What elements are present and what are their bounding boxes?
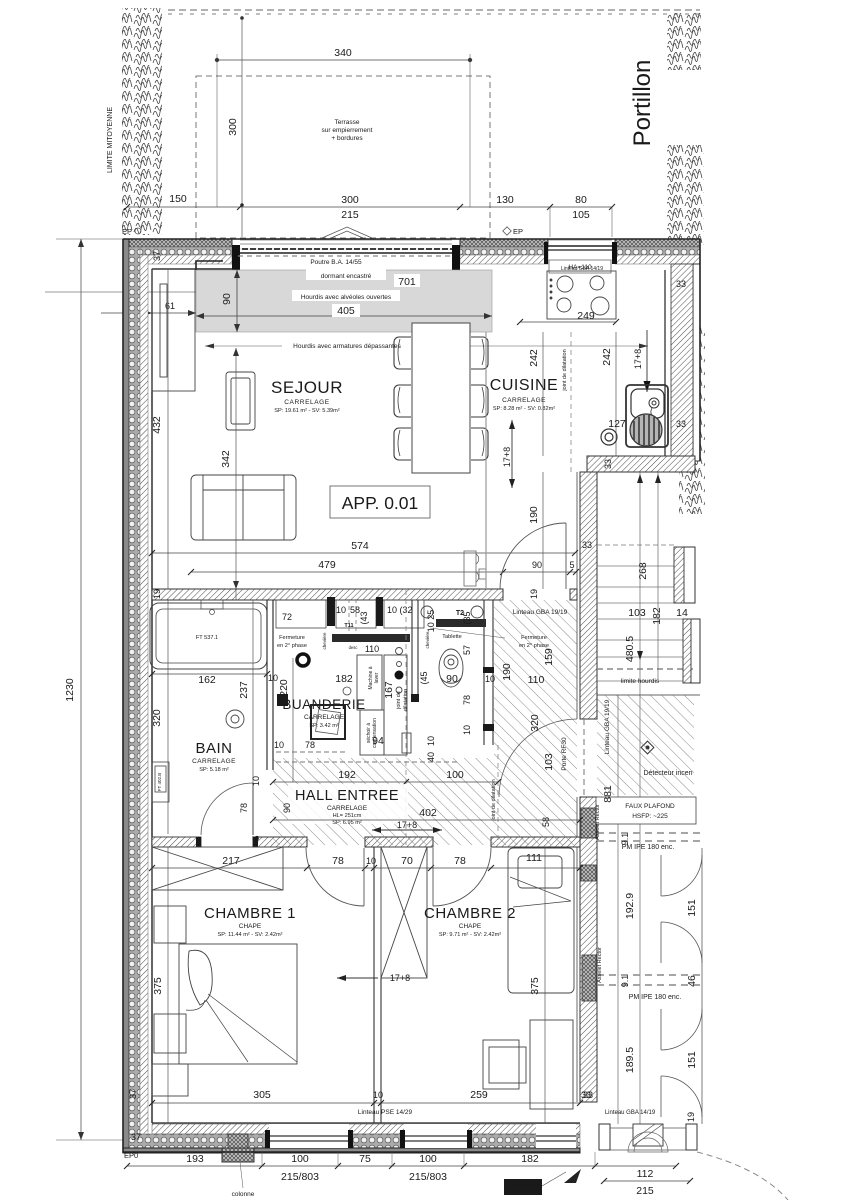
svg-text:881: 881 [602,785,614,803]
svg-text:Portillon: Portillon [629,60,656,147]
svg-text:78: 78 [305,740,315,750]
bedroom window 2 [400,1124,472,1148]
bedroom window 3 small [536,1124,576,1148]
label dormant encastre [306,269,386,280]
dim 242 rot 1 [542,332,544,456]
svg-text:5: 5 [569,560,574,570]
hall north line [485,332,487,589]
svg-text:EP0: EP0 [124,1151,138,1160]
building outer boundary emphasis [123,239,700,1153]
svg-text:78: 78 [239,803,249,813]
svg-text:Poutre B.A. 14/55: Poutre B.A. 14/55 [310,259,362,266]
black post 1 [327,597,335,626]
svg-text:EP: EP [122,227,132,236]
EP symbol left [122,227,141,236]
door chambre2 [433,848,491,906]
svg-text:APP. 0.01: APP. 0.01 [342,493,419,513]
svg-text:17+8: 17+8 [502,447,512,467]
svg-text:19: 19 [686,1112,696,1122]
wall hatch block 0 [581,865,596,881]
door stop dot [297,654,309,666]
svg-text:9.1: 9.1 [620,975,630,988]
svg-text:100: 100 [291,1153,309,1165]
small double circle [601,429,617,445]
svg-text:249: 249 [577,310,595,322]
stair side wall strip lower [683,619,691,683]
svg-text:dormant encastré: dormant encastré [321,273,372,280]
svg-text:217: 217 [222,855,240,867]
svg-text:chevière: chevière [322,632,327,650]
wall hatch block 2 [582,955,596,1001]
svg-text:5: 5 [251,835,261,840]
svg-text:37: 37 [131,1132,141,1142]
svg-text:17+8: 17+8 [397,820,417,830]
svg-text:375: 375 [152,977,164,995]
dim 375 rot chambre1 [167,847,169,1123]
svg-text:130: 130 [496,194,514,206]
door sejour-hall leaf+arc [500,523,566,589]
svg-text:103: 103 [628,607,646,619]
detecteur hydrocarbures black label [504,1179,542,1195]
leader hourdis armatures [205,344,648,349]
svg-text:Fermeture: Fermeture [279,635,305,641]
dim 574 [149,550,578,556]
exterior stair steps [597,472,700,695]
svg-text:10 25: 10 25 [426,610,436,633]
bedroom window 1 [265,1124,353,1148]
svg-text:110: 110 [528,674,545,686]
dims row above bedroom wall [149,865,583,871]
property boundary top dashed line [168,10,700,14]
svg-text:EP: EP [513,227,523,236]
bain door arc [201,783,253,835]
svg-text:215/803: 215/803 [281,1171,319,1183]
label HALL ENTREE [288,784,408,824]
svg-text:37: 37 [128,1089,138,1099]
hedge scribble left band [122,8,162,235]
svg-text:(35: (35 [462,611,472,624]
corridor left wall upper (hall side) [577,472,597,719]
svg-text:colonne: colonne [232,1191,255,1198]
svg-text:Tablette: Tablette [442,634,462,640]
svg-text:150: 150 [169,193,187,205]
svg-text:SP: 19.61 m² - SV: 5.39m²: SP: 19.61 m² - SV: 5.39m² [274,408,340,414]
svg-text:sur empierrement: sur empierrement [322,127,373,134]
chairs left column [394,337,411,460]
extension lines bottom [262,1152,595,1166]
svg-text:T11: T11 [344,623,353,629]
wall hatch block 1 [581,808,596,838]
cabinet row top [276,600,424,628]
svg-text:193: 193 [186,1153,204,1165]
slope 17+8 chambre [337,975,378,981]
svg-text:151: 151 [686,899,698,917]
svg-text:162: 162 [198,674,216,686]
dim 300 vertical [241,16,243,237]
dim 375 rot chambre2 [544,847,546,1123]
desk chambre2 [530,1020,573,1109]
svg-text:HALL ENTREE: HALL ENTREE [295,788,399,804]
svg-text:33: 33 [603,459,613,469]
svg-text:10: 10 [426,736,436,746]
svg-text:215: 215 [341,209,359,221]
dim 405 [196,313,492,319]
top wall pier right [615,239,700,264]
boiler circle [630,414,662,446]
svg-text:90: 90 [446,673,458,685]
svg-text:215: 215 [636,1185,654,1197]
svg-text:joint de dilatation: joint de dilatation [491,779,497,821]
svg-text:167: 167 [383,681,395,699]
corridor door arc 2b [661,1076,702,1117]
svg-text:480.5: 480.5 [624,636,636,662]
svg-text:PM IPE 180 enc.: PM IPE 180 enc. [622,844,675,851]
svg-text:300: 300 [227,118,239,136]
slope arrow 17+8 kitchen left [509,420,515,488]
washing tub square [311,705,345,739]
svg-text:58: 58 [541,817,551,827]
svg-text:574: 574 [351,540,369,552]
svg-text:190: 190 [528,506,540,524]
hall hatched floor [273,600,577,845]
svg-text:19: 19 [529,589,539,599]
svg-text:CARRELAGE: CARRELAGE [502,397,546,404]
svg-text:Hourdis avec alvéoles ouvertes: Hourdis avec alvéoles ouvertes [301,294,392,301]
dim row bottom rooms [149,1100,583,1106]
dim 162 [149,671,270,677]
svg-text:Hourdis avec armatures dépassa: Hourdis avec armatures dépassantes [293,343,401,350]
svg-text:SP: 8.28 m² - SV: 0.82m²: SP: 8.28 m² - SV: 0.82m² [493,406,555,412]
middle wall sejour/bain (19) [152,589,577,600]
window tilt symbol top [322,227,372,238]
svg-text:desc: desc [349,645,358,650]
svg-text:(43: (43 [359,611,369,624]
leader fermeture [430,628,505,638]
machine a laver + sechoir boxes [357,655,411,755]
svg-text:10: 10 [462,725,472,735]
shelf black bar [436,619,486,627]
hedge scribble right band 3 [679,326,705,514]
corridor long verticals [618,472,702,1124]
bain south wall piece [152,837,201,847]
dim 242 rot 2 [615,332,617,456]
svg-text:CHAMBRE 1: CHAMBRE 1 [204,905,296,922]
dim 432 rot [167,270,169,589]
svg-text:57: 57 [462,645,472,655]
kitchen right exterior wall [665,264,700,461]
slope 17+8 hall [372,827,442,833]
overall vertical dim 1230 [56,239,127,1140]
washbasin [226,710,244,728]
svg-text:111: 111 [526,852,542,864]
label hourdis alveoles [292,290,400,301]
hedge scribble right band 1 [667,13,701,70]
svg-text:Détecteur hydrocar.: Détecteur hydrocar. [506,1182,541,1187]
svg-text:78: 78 [462,695,472,705]
svg-text:CARRELAGE: CARRELAGE [192,758,236,765]
svg-text:94: 94 [372,735,384,747]
dim 249 [517,319,619,325]
svg-text:en auto-réparation: en auto-réparation [507,1188,540,1193]
svg-text:10: 10 [387,605,397,615]
corridor door arc 1a [661,855,702,896]
bed chambre1 [179,944,297,1064]
svg-text:Asselet Rector: Asselet Rector [595,804,601,840]
svg-text:(45: (45 [419,671,429,684]
porch hatched floor [597,695,694,795]
kitchen-stair step wall horizontal [587,456,695,472]
svg-text:237: 237 [238,681,250,699]
svg-text:CARRELAGE: CARRELAGE [284,399,330,406]
svg-text:90: 90 [282,803,292,813]
radiator chambre1 [152,1064,188,1096]
svg-text:268: 268 [637,562,649,580]
svg-text:Asselet Rector: Asselet Rector [597,947,603,983]
svg-text:375: 375 [529,977,541,995]
svg-text:19: 19 [152,589,162,599]
svg-text:242: 242 [528,349,540,367]
svg-text:159: 159 [543,648,555,666]
dim 192 [270,779,501,785]
svg-text:190: 190 [501,663,513,681]
svg-text:320: 320 [151,709,163,727]
APP. 0.01 box [330,486,430,518]
svg-text:402: 402 [419,807,437,819]
armoire chambre1 with X [152,847,283,890]
dim 701 [394,274,420,287]
wc toilet [439,649,463,687]
svg-text:80: 80 [575,194,587,206]
door chambre1 [306,848,364,906]
wc niche west wall [411,600,419,702]
svg-text:17+8: 17+8 [633,349,643,369]
dim 340 [215,54,472,207]
top wall pier left (crosshatch+dots+hatch) [123,239,232,269]
svg-text:limite hourdis: limite hourdis [621,678,660,685]
svg-text:LIMITE MITOYENNE: LIMITE MITOYENNE [107,107,114,173]
svg-text:SEJOUR: SEJOUR [271,378,343,397]
svg-text:33: 33 [676,279,686,289]
joint de dilatation kitchen [570,332,572,472]
svg-text:SP: 11.44 m² - SV: 2.42m²: SP: 11.44 m² - SV: 2.42m² [218,932,283,938]
neighbour party line [45,291,196,293]
svg-text:joint de: joint de [396,691,402,710]
svg-text:10: 10 [274,740,284,750]
svg-text:+ bordures: + bordures [331,135,363,142]
bain door jambs [196,837,201,847]
kitchen window HA=110 [544,240,617,273]
terrace dashed outline [196,76,490,238]
sofa [191,475,296,540]
svg-text:182: 182 [335,673,353,685]
dims row 150/300/130/80 + 215/105 [124,204,615,237]
dim 402 [270,817,583,823]
svg-text:10: 10 [485,674,495,684]
svg-text:189.5: 189.5 [624,1047,636,1073]
svg-text:chevière: chevière [425,631,430,649]
dim 320 rot left [167,600,169,834]
corridor door arc 1b [661,922,702,963]
circle 182 [343,687,351,695]
bed chambre2 [508,848,574,993]
svg-text:701: 701 [398,276,416,288]
svg-text:192.9: 192.9 [624,893,636,919]
detecteur incendie symbol [641,741,654,754]
svg-text:en 2° phase: en 2° phase [519,643,549,649]
svg-text:72: 72 [282,612,292,622]
svg-text:182: 182 [651,607,663,625]
svg-text:37: 37 [152,251,162,261]
svg-text:78: 78 [454,855,466,867]
kitchen sink unit [626,385,668,447]
svg-text:33: 33 [582,540,592,550]
dining table [412,323,470,473]
left exterior wall [123,239,152,1152]
chaudiere circles left [395,648,404,694]
joint de dilatation hall 2 [497,745,499,845]
wc partition east [483,600,494,745]
svg-text:110: 110 [365,644,379,654]
svg-text:10: 10 [336,605,346,615]
svg-text:Terrasse: Terrasse [335,119,360,126]
svg-text:259: 259 [470,1089,488,1101]
svg-text:215/803: 215/803 [409,1171,447,1183]
svg-text:90: 90 [221,293,233,305]
svg-text:SP: 6.95 m²: SP: 6.95 m² [332,820,362,826]
fermeture dashed verticals [348,599,350,640]
north arrow detail [564,1169,581,1183]
svg-text:Linteau GBA 14/19: Linteau GBA 14/19 [605,1110,656,1116]
big bay window 215 [232,240,460,270]
svg-text:BAIN: BAIN [195,740,232,757]
top wall pier mid (between windows) [460,239,548,264]
stove [547,271,616,319]
svg-text:127: 127 [608,418,626,430]
svg-text:33: 33 [676,419,686,429]
dashed path curve bottom right [697,1152,788,1200]
svg-text:dilatation: dilatation [403,689,409,711]
corridor door arc 2a [661,1009,702,1050]
door arc RF30 [499,719,577,797]
svg-text:100: 100 [419,1153,437,1165]
buanderie west wall [267,600,288,770]
svg-text:Linteau GBA 19/19: Linteau GBA 19/19 [513,609,568,616]
bedside table 2 [154,1014,186,1053]
counter black bar [332,634,410,642]
FAUX PLAFOND box [596,797,696,824]
svg-text:112: 112 [637,1168,654,1180]
svg-text:105: 105 [572,209,590,221]
svg-text:305: 305 [253,1089,271,1101]
closet left [152,269,195,391]
stair outline right [684,547,700,683]
svg-text:CHAPE: CHAPE [459,923,482,930]
svg-text:1230: 1230 [64,678,76,702]
dim 342 rot [233,348,239,600]
slope arrow 17+8 kitchen right [644,330,651,392]
svg-text:HL= 251cm: HL= 251cm [333,813,362,819]
chairs right column [471,337,488,460]
svg-text:laver: laver [374,672,380,683]
svg-text:CARRELAGE: CARRELAGE [327,805,368,812]
shaft X box [381,847,427,978]
cabinet at hall wall [464,551,486,586]
svg-text:PM IPE 180 enc.: PM IPE 180 enc. [629,994,682,1001]
svg-text:61: 61 [165,301,175,311]
svg-text:SP: 5.18 m²: SP: 5.18 m² [199,767,229,773]
dim 90 vertical on grey band [234,270,240,332]
entry door bottom [599,1124,697,1152]
svg-text:Fermeture: Fermeture [521,635,547,641]
svg-text:90: 90 [532,560,542,570]
svg-text:en 2° phase: en 2° phase [277,643,307,649]
svg-text:40: 40 [426,752,436,762]
dim 237 rot [252,600,254,834]
svg-text:FT 537.1: FT 537.1 [196,635,218,641]
chair chambre2 [483,1040,526,1089]
hourdis grey band [196,261,492,332]
svg-text:182: 182 [521,1153,539,1165]
svg-text:242: 242 [601,348,613,366]
svg-text:340: 340 [334,47,352,59]
column footing bottom [222,1134,254,1162]
svg-text:SP: 9.71 m² - SV: 2.42m²: SP: 9.71 m² - SV: 2.42m² [439,932,501,938]
dim 479 [188,569,579,575]
svg-text:CUISINE: CUISINE [490,377,558,394]
svg-text:151: 151 [686,1051,698,1069]
svg-text:46: 46 [686,975,698,987]
corridor left wall lower [577,797,597,1102]
entry dim line [601,1178,693,1184]
T circles [421,606,483,618]
svg-text:70: 70 [401,855,413,867]
svg-text:CHAPE: CHAPE [239,923,262,930]
bottom dim line [124,1163,679,1169]
svg-text:78: 78 [332,855,344,867]
vanity FT 402.B [152,762,169,802]
svg-text:103: 103 [543,753,555,771]
joint de dilatation hall vertical [405,590,407,845]
svg-text:432: 432 [151,416,163,434]
svg-text:320: 320 [529,714,541,732]
RF30 door opening dashes [583,719,585,797]
svg-text:479: 479 [318,559,336,571]
svg-text:Linteau GBA 14/19: Linteau GBA 14/19 [561,266,603,272]
svg-text:CHAMBRE 2: CHAMBRE 2 [424,905,516,922]
hedge scribble right band 2 [667,145,704,245]
svg-text:FAUX PLAFOND: FAUX PLAFOND [625,803,675,810]
svg-text:33: 33 [583,1090,593,1100]
svg-text:75: 75 [359,1153,371,1165]
svg-text:405: 405 [337,305,355,317]
bathtub [150,600,267,669]
bedside table 1 [154,906,186,943]
IPE beam dashes 1 [597,833,702,841]
svg-text:342: 342 [220,450,232,468]
terrace edge extension [195,238,197,270]
partition wall chambres [374,847,381,1123]
bottom exterior wall [123,1123,580,1153]
svg-text:10: 10 [251,776,261,786]
svg-text:FT 402.B: FT 402.B [157,773,162,791]
svg-text:192: 192 [338,769,356,781]
IPE beam dashes 2 [597,975,702,985]
svg-text:SP: 3.42 m²: SP: 3.42 m² [309,723,339,729]
EP symbol right [503,227,523,236]
svg-text:14: 14 [676,607,688,619]
svg-text:10: 10 [373,1090,383,1100]
dim 190 rot kitchen door [542,472,544,589]
